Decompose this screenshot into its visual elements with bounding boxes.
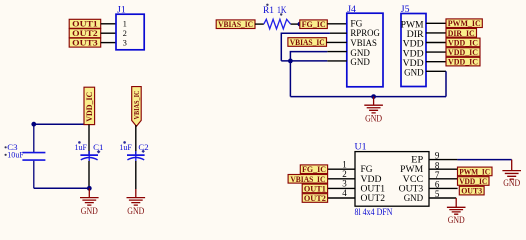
svg-text:DIR_IC: DIR_IC bbox=[448, 29, 475, 38]
pin J4.RPROG bbox=[330, 32, 347, 34]
pin J4.GND1 bbox=[327, 51, 347, 53]
junction C3 top bbox=[31, 122, 36, 127]
svg-text:1: 1 bbox=[123, 20, 127, 29]
svg-text:GND: GND bbox=[350, 57, 370, 67]
net label VBIAS_IC (J4) bbox=[288, 38, 327, 47]
svg-text:OUT2: OUT2 bbox=[72, 29, 98, 38]
svg-text:9: 9 bbox=[435, 151, 440, 161]
svg-text:6: 6 bbox=[435, 180, 440, 190]
svg-text:OUT3: OUT3 bbox=[399, 183, 424, 193]
svg-text:PWM_IC: PWM_IC bbox=[448, 19, 481, 28]
wire GND vertical drop bbox=[289, 61, 291, 97]
svg-text:GND: GND bbox=[127, 206, 144, 216]
U1 pin 6 bbox=[429, 180, 458, 190]
svg-text:GND: GND bbox=[365, 113, 382, 123]
svg-text:FG: FG bbox=[361, 164, 374, 174]
connector J4 bbox=[347, 4, 383, 87]
svg-text:VBIAS_IC: VBIAS_IC bbox=[132, 91, 141, 120]
svg-text:OUT1: OUT1 bbox=[72, 20, 98, 29]
net label OUT2 (U1) bbox=[302, 194, 327, 203]
resistor R1 bbox=[263, 5, 291, 29]
pin J5.GND bbox=[426, 70, 446, 72]
capacitor C1 bbox=[75, 125, 104, 189]
svg-text:VDD: VDD bbox=[403, 58, 425, 68]
net label FG_IC bbox=[300, 20, 328, 29]
wire GND horizontal bus bbox=[290, 96, 446, 98]
svg-text:1uF: 1uF bbox=[119, 142, 132, 152]
svg-text:RPROG: RPROG bbox=[350, 28, 380, 38]
svg-text:2: 2 bbox=[123, 29, 127, 38]
pin J4.GND2 bbox=[327, 60, 347, 62]
svg-text:FG_IC: FG_IC bbox=[302, 165, 326, 174]
ground symbol (EP) bbox=[502, 160, 521, 189]
svg-text:OUT3: OUT3 bbox=[461, 187, 482, 196]
svg-text:3: 3 bbox=[342, 179, 347, 189]
ground symbol (J4 bus) bbox=[364, 97, 383, 124]
svg-text:VDD_IC: VDD_IC bbox=[448, 58, 478, 67]
svg-text:5: 5 bbox=[435, 189, 440, 199]
wire GND bottom rail bbox=[34, 187, 90, 189]
svg-text:GND: GND bbox=[404, 68, 424, 78]
pin J5.VDD1 bbox=[426, 42, 446, 44]
svg-text:VDD_IC: VDD_IC bbox=[448, 38, 478, 47]
svg-text:1: 1 bbox=[342, 159, 347, 169]
svg-text:VBIAS_IC: VBIAS_IC bbox=[290, 38, 325, 47]
pin J5.VDD3 bbox=[426, 61, 446, 63]
net label FG_IC (U1) bbox=[300, 165, 327, 174]
net label OUT1 (U1) bbox=[302, 184, 327, 193]
U1 pin 9 (EP) bbox=[429, 151, 457, 161]
svg-text:VBIAS_IC: VBIAS_IC bbox=[290, 175, 325, 184]
junction C1 bottom bbox=[87, 186, 92, 191]
wire OUT2 to J1 pin2 bbox=[101, 32, 116, 34]
svg-text:J1: J1 bbox=[117, 5, 126, 16]
svg-text:OUT2: OUT2 bbox=[304, 194, 326, 203]
svg-text:8: 8 bbox=[435, 160, 440, 170]
svg-text:OUT1: OUT1 bbox=[304, 184, 326, 193]
svg-text:GND: GND bbox=[404, 193, 424, 203]
net label VBIAS_IC (left of R1) bbox=[216, 20, 255, 29]
svg-text:VDD: VDD bbox=[361, 174, 383, 184]
svg-text:J5: J5 bbox=[401, 4, 410, 15]
ground symbol (C1) bbox=[80, 188, 99, 216]
svg-text:OUT3: OUT3 bbox=[72, 39, 98, 48]
wire OUT3 to J1 pin3 bbox=[101, 42, 116, 44]
pin J4.VBIAS bbox=[327, 41, 347, 43]
svg-text:DIR: DIR bbox=[407, 29, 424, 39]
svg-text:4: 4 bbox=[342, 188, 347, 198]
net label OUT2 bbox=[69, 29, 101, 38]
wire RPROG to GND net bbox=[281, 33, 330, 61]
net label PWM_IC (U1) bbox=[458, 167, 493, 176]
svg-text:10uF: 10uF bbox=[7, 149, 24, 159]
R1 hotspot dots bbox=[266, 4, 268, 6]
svg-text:2: 2 bbox=[342, 169, 347, 179]
svg-text:VCC: VCC bbox=[403, 174, 424, 184]
svg-text:VDD_IC: VDD_IC bbox=[459, 177, 487, 186]
svg-text:1uF: 1uF bbox=[75, 142, 88, 152]
wire VBIAS_IC to R1 bbox=[255, 23, 264, 25]
svg-text:OUT2: OUT2 bbox=[361, 193, 386, 203]
net label VDD_IC (vertical) bbox=[84, 87, 95, 124]
net label OUT3 (U1) bbox=[459, 186, 484, 195]
junction GND bus bbox=[371, 94, 376, 99]
U1 pin 2 bbox=[328, 169, 355, 179]
U1 pin 5 (GND) bbox=[429, 189, 456, 199]
wire OUT1 to J1 pin1 bbox=[101, 23, 116, 25]
net label VBIAS_IC (U1) bbox=[288, 175, 328, 184]
svg-text:VDD_IC: VDD_IC bbox=[85, 92, 94, 122]
connector J5 bbox=[401, 4, 426, 87]
pin J5.PWM bbox=[426, 22, 446, 24]
net label PWM_IC bbox=[446, 19, 482, 28]
svg-text:VDD: VDD bbox=[403, 39, 425, 49]
svg-text:VBIAS: VBIAS bbox=[350, 38, 377, 48]
net label OUT3 bbox=[69, 38, 101, 47]
svg-text:EP: EP bbox=[411, 155, 423, 165]
svg-text:GND: GND bbox=[448, 215, 465, 225]
U1 pin 4 bbox=[328, 188, 355, 198]
capacitor C2 bbox=[119, 125, 148, 189]
junction at FG node bbox=[298, 22, 303, 27]
ground symbol (U1 pin5) bbox=[447, 198, 466, 225]
svg-text:U1: U1 bbox=[355, 142, 367, 153]
wire VDD top rail bbox=[34, 123, 89, 125]
pin J4.FG bbox=[327, 23, 347, 25]
U1 pin 7 bbox=[429, 170, 458, 180]
svg-text:PWM: PWM bbox=[401, 20, 424, 30]
net label DIR_IC bbox=[446, 29, 477, 38]
svg-text:FG_IC: FG_IC bbox=[302, 20, 326, 29]
net label VDD_IC bbox=[446, 38, 480, 47]
net label VBIAS_IC (vertical) bbox=[132, 87, 142, 127]
wire R1 to FG_IC bbox=[291, 23, 300, 25]
net label VDD_IC bbox=[446, 48, 480, 57]
capacitor C3 bbox=[5, 124, 46, 188]
svg-text:VDD_IC: VDD_IC bbox=[448, 48, 478, 57]
U1 pin 3 bbox=[328, 179, 355, 189]
svg-text:VDD: VDD bbox=[403, 48, 425, 58]
pin J5.VDD2 bbox=[426, 51, 446, 53]
wire GND2 run bbox=[281, 60, 327, 62]
svg-text:VBIAS_IC: VBIAS_IC bbox=[218, 20, 253, 29]
U1 pin 1 bbox=[328, 159, 355, 169]
IC U1 bbox=[355, 142, 430, 219]
connector J1 bbox=[116, 5, 144, 50]
svg-text:GND: GND bbox=[81, 206, 98, 216]
svg-text:3: 3 bbox=[123, 39, 127, 48]
svg-text:R1: R1 bbox=[263, 5, 274, 16]
net label VDD_IC bbox=[446, 57, 480, 66]
net label VDD_IC (U1) bbox=[458, 177, 490, 186]
svg-text:PWM: PWM bbox=[400, 164, 423, 174]
svg-text:OUT1: OUT1 bbox=[361, 183, 386, 193]
svg-text:GND: GND bbox=[503, 178, 520, 188]
svg-text:8l 4x4 DFN: 8l 4x4 DFN bbox=[355, 208, 393, 218]
wire EP to GND bbox=[457, 159, 511, 161]
junction GND node bbox=[288, 59, 293, 64]
svg-text:PWM_IC: PWM_IC bbox=[459, 167, 490, 176]
pin J5.DIR bbox=[426, 32, 446, 34]
svg-text:FG: FG bbox=[350, 18, 363, 28]
svg-text:J4: J4 bbox=[347, 4, 356, 15]
net label OUT1 bbox=[69, 19, 101, 28]
svg-text:7: 7 bbox=[435, 170, 440, 180]
ground symbol (C2) bbox=[127, 189, 146, 216]
U1 pin 8 bbox=[429, 160, 458, 170]
wire J5 GND down bbox=[445, 71, 447, 96]
wire GND1 drop bbox=[290, 52, 327, 61]
